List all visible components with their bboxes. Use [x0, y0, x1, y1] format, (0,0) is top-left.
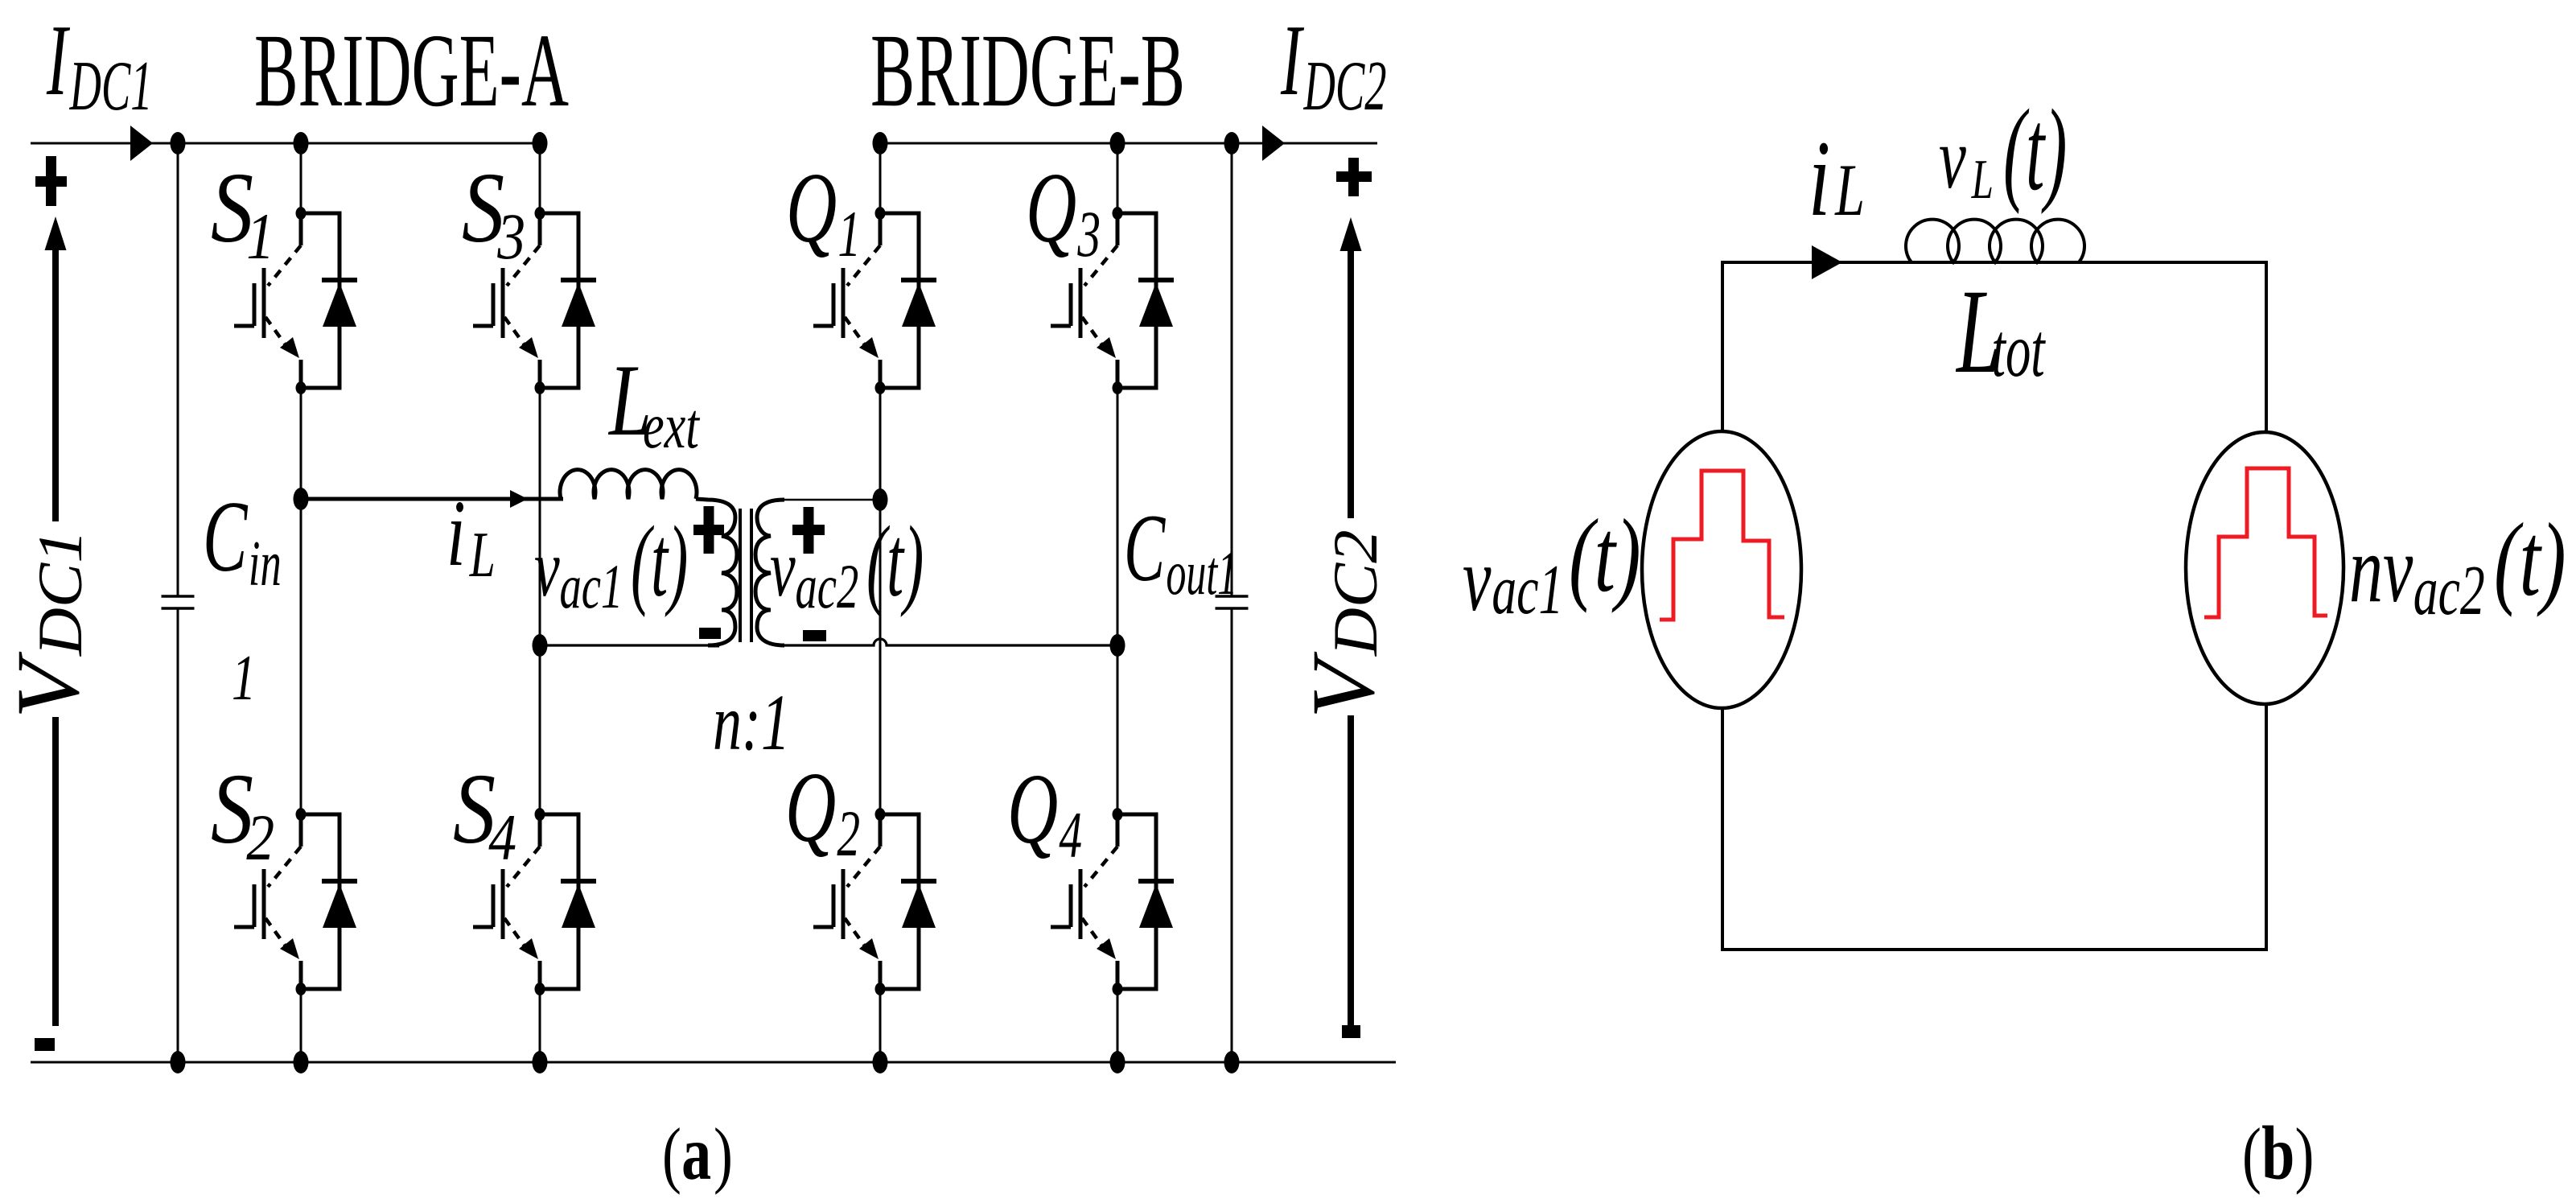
- svg-text:in: in: [249, 528, 282, 599]
- svg-text:v: v: [770, 524, 796, 614]
- svg-text:BRIDGE-A: BRIDGE-A: [254, 13, 569, 129]
- svg-text:out1: out1: [1166, 539, 1237, 608]
- svg-text:I: I: [1280, 4, 1304, 116]
- svg-text:L: L: [469, 520, 496, 591]
- svg-text:v: v: [534, 524, 560, 614]
- svg-text:n:1: n:1: [713, 677, 790, 766]
- svg-text:DC1: DC1: [69, 47, 153, 125]
- svg-text:V: V: [0, 652, 97, 719]
- svg-text:): ): [2295, 1112, 2315, 1195]
- svg-text:ac2: ac2: [796, 551, 859, 621]
- svg-text:i: i: [446, 481, 466, 587]
- svg-text:BRIDGE-B: BRIDGE-B: [870, 13, 1185, 129]
- svg-text:b: b: [2261, 1111, 2294, 1196]
- svg-text:(t): (t): [2003, 84, 2067, 214]
- svg-text:C: C: [1124, 494, 1167, 601]
- svg-text:2: 2: [246, 801, 274, 875]
- svg-text:V: V: [1294, 652, 1393, 719]
- svg-text:DC2: DC2: [1321, 529, 1390, 657]
- svg-text:3: 3: [496, 200, 525, 274]
- svg-text:Q: Q: [786, 153, 837, 264]
- svg-text:ac1: ac1: [1492, 550, 1563, 628]
- svg-text:(: (: [662, 1112, 681, 1195]
- svg-text:nv: nv: [2349, 517, 2413, 623]
- svg-text:3: 3: [1077, 198, 1101, 270]
- svg-text:1: 1: [232, 643, 256, 714]
- svg-text:2: 2: [837, 797, 860, 870]
- svg-text:ac2: ac2: [2413, 551, 2485, 629]
- svg-text:L: L: [1834, 150, 1865, 232]
- svg-text:ac1: ac1: [560, 551, 623, 621]
- svg-text:DC2: DC2: [1303, 47, 1387, 125]
- svg-text:v: v: [1939, 110, 1966, 207]
- svg-text:): ): [714, 1112, 733, 1195]
- svg-text:4: 4: [488, 801, 516, 875]
- svg-text:L: L: [1971, 149, 1994, 212]
- svg-text:(: (: [2242, 1112, 2261, 1195]
- svg-text:(t): (t): [631, 505, 688, 617]
- svg-text:tot: tot: [1992, 308, 2046, 393]
- svg-text:4: 4: [1059, 799, 1082, 871]
- svg-text:(t): (t): [1569, 498, 1641, 614]
- svg-text:v: v: [1463, 529, 1492, 630]
- svg-text:DC1: DC1: [26, 529, 95, 657]
- svg-text:C: C: [203, 481, 249, 593]
- svg-text:a: a: [681, 1111, 711, 1196]
- svg-text:1: 1: [246, 200, 274, 274]
- svg-text:1: 1: [837, 198, 861, 270]
- svg-text:i: i: [1809, 119, 1830, 239]
- svg-text:Q: Q: [785, 752, 836, 863]
- svg-text:(t): (t): [2494, 502, 2566, 618]
- svg-text:ext: ext: [643, 391, 701, 462]
- svg-text:I: I: [46, 4, 70, 116]
- svg-text:(t): (t): [866, 505, 924, 617]
- svg-text:Q: Q: [1026, 153, 1076, 264]
- svg-text:Q: Q: [1007, 754, 1058, 865]
